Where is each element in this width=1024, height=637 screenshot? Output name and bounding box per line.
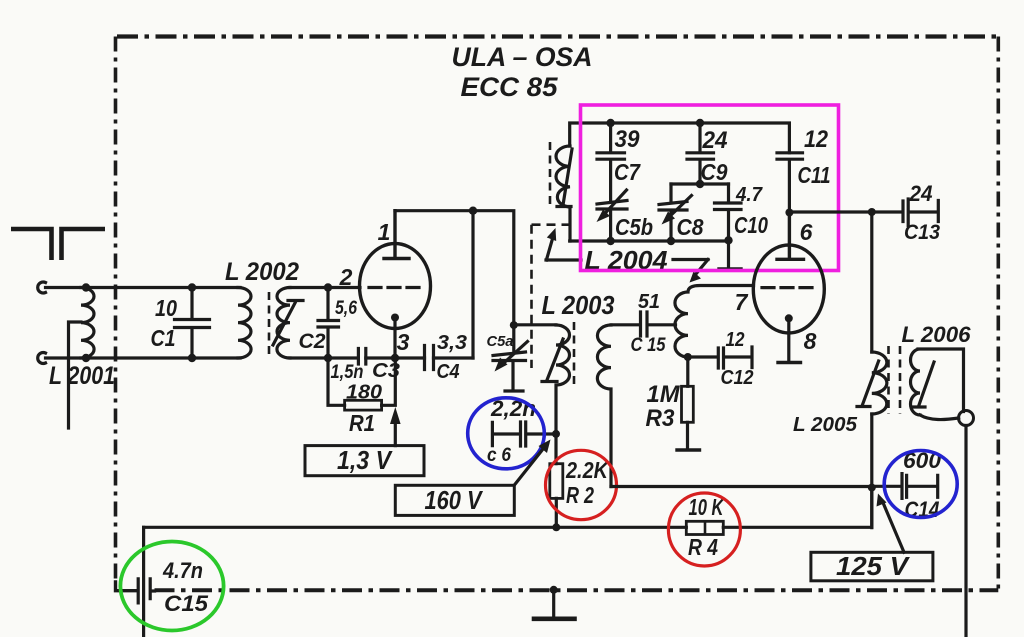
svg-text:R 2: R 2 [566,482,594,508]
capacitor C15 bypass [138,579,154,603]
resistor R4 [686,521,723,534]
inductor L2001 [69,288,95,429]
svg-text:R 4: R 4 [688,534,718,560]
label L2006 [902,322,972,347]
capacitor C7 [597,123,625,202]
triode V1a grid (dashed) [369,286,419,289]
svg-text:4.7: 4.7 [735,184,763,206]
arrow 1,3V to R1 node [390,407,401,446]
svg-text:C1: C1 [151,325,176,351]
wire grid rail to tube 1 [290,286,360,289]
inductor L2006 [911,349,964,420]
triode V1b grid (dashed) [762,286,815,289]
svg-text:2: 2 [339,264,353,290]
dash-dot chassis border bottom [155,588,999,592]
svg-text:5,6: 5,6 [335,298,357,319]
capacitor C13 [903,199,938,226]
node grid coil bottom [684,353,692,361]
pin 8 label [804,328,817,354]
core L2004 dashed [549,142,552,207]
capacitor C9 [687,123,714,184]
inductor L2004 tank winding [556,146,570,241]
triode V1a envelope [360,244,431,329]
capacitor C2 [318,288,339,359]
ground symbol bottom [532,586,577,619]
core L2002 dashed [268,292,271,355]
border bottom-left corner lead into C15 [116,582,138,591]
triode V1b envelope [753,245,824,333]
triode V1a cathode [391,314,399,359]
wire oscillator tank bottom rail [570,239,730,242]
svg-text:24: 24 [909,181,933,206]
wire antenna top rail [46,286,241,289]
arrow L2004 to grid coil [690,260,709,283]
node L2001 top [82,283,90,291]
core L2005 dashed [887,346,890,414]
wire L2005 bus upper [870,212,873,352]
node C2 bottom [324,354,332,362]
wire anode to C13 and L2005 bus [789,210,901,213]
wire left riser [142,527,145,637]
svg-text:ULA – OSA: ULA – OSA [452,42,593,72]
dash-dot chassis border right [996,37,1000,590]
svg-text:C8: C8 [677,214,704,240]
node C1 bottom [188,354,196,362]
wire 160V rail [611,485,872,488]
wire antenna bottom rail [46,356,241,359]
svg-text:39: 39 [615,126,641,153]
dash-dot chassis border left [114,37,118,585]
triode V1b anode [777,213,804,259]
label R1 [349,410,375,436]
svg-text:1,5n: 1,5n [331,362,364,383]
box 1,3 V [305,445,424,476]
svg-text:7: 7 [735,289,749,315]
svg-text:2.2K: 2.2K [565,457,609,483]
svg-text:160 V: 160 V [425,485,484,515]
capacitor C3 [358,349,365,365]
tuning slug L2003 [542,339,563,382]
input terminal bottom [38,353,46,364]
label C13 [904,221,940,244]
tuning slug L2006 [913,362,934,407]
svg-text:125 V: 125 V [836,551,911,581]
svg-text:R1: R1 [349,410,375,436]
label C9 [701,159,728,185]
label R2 [566,482,594,508]
variable capacitor C8 [659,184,692,241]
svg-text:24: 24 [702,127,728,154]
resistor R3 [677,357,700,450]
svg-text:C7: C7 [614,159,641,185]
node C9 bottom [696,180,704,188]
tuning slug L2002 [273,301,303,346]
value 4.7n (C15) [162,558,203,583]
label C7 [614,159,641,185]
wire anode rail to C5a branch [395,211,514,325]
inductor L2002 secondary [277,288,290,359]
svg-text:C13: C13 [904,221,940,244]
node L2005 bus top [868,208,876,216]
svg-text:3: 3 [397,329,410,355]
svg-text:C4: C4 [437,361,460,383]
node C10 bottom rail [724,236,732,244]
node C11 bottom / anode junction [785,209,793,217]
dash-dot chassis border top [117,34,998,38]
svg-text:c 6: c 6 [487,445,511,466]
node L2001 bottom [82,354,90,362]
wire C4 right leg [471,211,474,358]
label C8 [677,214,704,240]
node C5a top junction [510,321,518,329]
annotation magenta rectangle [581,105,839,271]
label C14 [905,497,940,522]
annotation red circle R2 [546,450,617,519]
arrow 125V to junction [877,494,905,553]
svg-text:L 2001: L 2001 [49,362,115,390]
svg-text:C10: C10 [734,212,768,238]
label R 4 [688,534,718,560]
label C11 [798,162,831,188]
svg-text:C15: C15 [164,591,209,616]
value 180 (R1) [346,382,382,404]
value 24 (C9) [702,127,728,154]
node C2 top [324,283,332,291]
capacitor C1 [175,288,210,359]
svg-text:L 2003: L 2003 [542,290,615,320]
svg-text:10: 10 [155,295,177,321]
triode V1a anode [384,211,409,259]
svg-text:C12: C12 [721,367,754,389]
svg-text:1: 1 [378,219,391,245]
output terminal circle [959,411,974,426]
label C10 [734,212,768,238]
value 10 (C1) [155,295,177,321]
svg-text:6: 6 [800,219,813,245]
wire 125V rail [144,488,872,528]
capacitor C10 [715,184,742,269]
core L2006 dashed [899,346,902,414]
inductor L2003 secondary [597,325,611,487]
annotation blue circle C14 [884,451,957,518]
capacitor C14 [872,474,938,499]
resistor R2 [550,434,563,527]
svg-text:L 2002: L 2002 [225,258,299,286]
inductor L2003 primary [556,325,570,434]
value 600 (C14) [903,448,942,473]
node C5b bottom [606,237,614,245]
wire oscillator tank top rail [570,123,790,153]
wire C5a junction to L2003 [514,323,556,326]
node anode rail junction [469,207,477,215]
node C7 top [606,119,614,127]
tuning slug L2004 [557,149,572,207]
pin 2 label [339,264,353,290]
label c6 [487,445,511,466]
value 10 K (R4) [689,494,725,520]
wire C8/C10 bracket [671,182,729,185]
value 2.2K (R2) [565,457,609,483]
node C1 top [188,283,196,291]
label R3 [646,405,676,432]
wire output down [964,426,967,637]
svg-text:R3: R3 [646,405,676,432]
svg-text:8: 8 [804,328,817,354]
resistor R1 [328,358,395,410]
svg-text:ECC 85: ECC 85 [461,72,559,102]
capacitor C15 coupling 51 [611,312,676,336]
svg-text:12: 12 [804,126,829,153]
svg-text:4.7n: 4.7n [162,558,203,583]
label L2001 [49,362,115,390]
annotation blue circle C6 [468,398,545,469]
svg-text:C11: C11 [798,162,831,188]
label C3 [372,360,400,382]
label C12 [721,367,754,389]
tuning slug L2005 [857,361,879,407]
svg-text:51: 51 [638,291,660,313]
node C9 top [696,119,704,127]
title ECC85 [461,72,559,102]
capacitor C6 [492,422,556,446]
title ULA-OSA [452,42,593,72]
pin 1 label [378,219,391,245]
inductor L2004 oscillator grid winding [675,286,754,358]
svg-text:L 2006: L 2006 [902,322,972,347]
node C8 bottom [667,237,675,245]
variable capacitor C5b [597,190,628,241]
pin 3 label [397,329,410,355]
inductor L2005 [872,352,887,414]
antenna dipole symbol [11,229,105,260]
svg-text:C5a: C5a [487,333,514,350]
inductor L2002 primary [238,288,251,359]
core L2003 dashed [573,322,576,386]
node R2 bottom [552,523,560,531]
svg-text:1,3 V: 1,3 V [337,445,393,475]
capacitor C4 [425,346,434,370]
value 12 (C11) [804,126,829,153]
value 24 (C13) [909,181,933,206]
wire L2005 bus lower [870,414,873,528]
capacitor C12 [688,347,752,368]
variable capacitor C5a [493,325,528,391]
arrow 160V to R2 node [514,440,550,486]
annotation green circle C15 [120,542,223,631]
label C2 [299,330,326,353]
value 5,6 (C2) [335,298,357,319]
svg-text:C9: C9 [701,159,728,185]
svg-text:C5b: C5b [615,214,653,240]
wire cathode rail [290,356,473,359]
label L2005 [793,414,858,436]
value 1M (R3) [647,381,681,408]
label C4 [437,361,460,383]
node C6/R2/L2003 junction [552,430,560,438]
label C 15 [631,335,666,356]
value 51 [638,291,660,313]
value 39 (C7) [615,126,641,153]
svg-text:12: 12 [726,329,745,351]
capacitor C11 [777,153,803,213]
box 125 V [811,551,933,581]
node 125V junction [868,484,876,492]
annotation red circle R4 [668,493,740,566]
node pin3 junction [391,354,399,362]
value 4.7 (C10) [735,184,763,206]
value 12 (C12) [726,329,745,351]
arrow L2004 to tank coil [546,228,556,260]
label L2003 [542,290,615,320]
mechanical link dashed [532,225,576,368]
pin 6 label [800,219,813,245]
svg-text:C2: C2 [299,330,326,353]
label L2002 [225,258,299,286]
svg-text:180: 180 [346,382,382,404]
box 160 V [395,485,514,515]
label C5a [487,333,514,350]
label L2004 with link dashes [546,245,708,275]
svg-text:L 2005: L 2005 [793,414,858,436]
pin 7 label [735,289,749,315]
label C5b [615,214,653,240]
label C15 [164,591,209,616]
triode V1b cathode [778,314,801,362]
label C1 [151,325,176,351]
svg-text:3,3: 3,3 [437,332,467,354]
svg-text:10 K: 10 K [689,494,725,520]
value 2,2n (C6) [490,396,536,421]
svg-text:C 15: C 15 [631,335,666,356]
input terminal top [38,282,46,293]
value 3,3 (C4) [437,332,467,354]
value 1,5n (C3) [331,362,364,383]
svg-text:1M: 1M [647,381,681,408]
